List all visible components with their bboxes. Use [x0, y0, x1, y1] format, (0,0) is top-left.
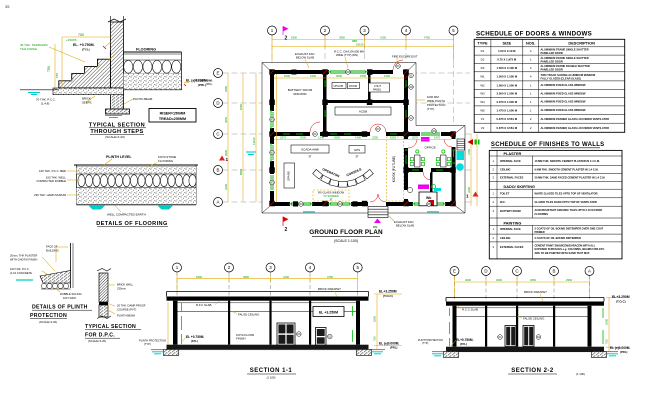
- svg-text:EL (±)0.000M.: EL (±)0.000M.: [196, 79, 213, 83]
- svg-text:W.C.: W.C.: [500, 200, 506, 204]
- svg-text:1: 1: [466, 194, 469, 199]
- svg-text:FACE OF: FACE OF: [46, 245, 58, 249]
- svg-text:BELOW SLAB: BELOW SLAB: [396, 224, 414, 228]
- svg-text:(TYP): (TYP): [422, 342, 428, 345]
- svg-text:E: E: [453, 269, 456, 274]
- svg-text:BATTERY ROOM: BATTERY ROOM: [288, 88, 313, 92]
- svg-text:COMPACTED RUBBLE: COMPACTED RUBBLE: [36, 179, 66, 183]
- svg-text:GLAZED TILES DADO UPTO TOP OF: GLAZED TILES DADO UPTO TOP OF VENTILATOR: [535, 200, 597, 204]
- svg-text:OFFICE: OFFICE: [424, 146, 435, 150]
- svg-text:UPS DB: UPS DB: [334, 84, 344, 88]
- svg-text:R.C.C.SLAB: R.C.C.SLAB: [462, 307, 478, 311]
- svg-text:3950: 3950: [339, 36, 345, 40]
- svg-text:100 THK. P.C.C.: 100 THK. P.C.C.: [10, 267, 30, 271]
- svg-text:2.070 X 1.000 M: 2.070 X 1.000 M: [497, 100, 518, 104]
- svg-text:NOS.: NOS.: [526, 41, 536, 46]
- svg-text:2950: 2950: [224, 86, 228, 92]
- svg-text:W1: W1: [480, 75, 485, 79]
- svg-text:(PRL): (PRL): [198, 83, 206, 87]
- svg-text:W3: W3: [480, 92, 485, 96]
- svg-text:RUBBLE SOLING: RUBBLE SOLING: [60, 292, 82, 296]
- svg-text:2250: 2250: [372, 136, 378, 140]
- svg-text:LT/HT: LT/HT: [374, 84, 381, 88]
- svg-text:2 COATS OF OIL BOUND DISTEMPER: 2 COATS OF OIL BOUND DISTEMPER: [535, 236, 582, 240]
- svg-text:PANEL: PANEL: [373, 88, 382, 92]
- svg-text:2070: 2070: [412, 136, 418, 140]
- svg-text:PROTECTION: PROTECTION: [30, 313, 67, 319]
- svg-text:FLOORING: FLOORING: [158, 159, 174, 163]
- svg-text:CEILING: CEILING: [500, 168, 511, 172]
- svg-text:UPS: UPS: [354, 148, 360, 152]
- svg-text:WIDE (TYP) (DN): WIDE (TYP) (DN): [336, 53, 358, 57]
- svg-text:ALUMINIUM FIXED GLASS WINDOW: ALUMINIUM FIXED GLASS WINDOW: [541, 91, 587, 95]
- svg-text:13100: 13100: [252, 137, 256, 145]
- svg-text:BRICK PARAPET: BRICK PARAPET: [318, 287, 341, 291]
- svg-text:(PRL): (PRL): [620, 350, 628, 354]
- svg-text:(1:10 CONCRETE: (1:10 CONCRETE: [10, 271, 32, 275]
- svg-text:STEPS: STEPS: [82, 101, 92, 105]
- svg-text:FALSE CEILING: FALSE CEILING: [523, 316, 545, 320]
- svg-text:1470: 1470: [434, 136, 440, 140]
- svg-text:1215: 1215: [390, 136, 396, 140]
- svg-text:D: D: [216, 101, 219, 106]
- svg-text:(TYL): (TYL): [82, 48, 90, 52]
- svg-text:DETAILS OF FLOORING: DETAILS OF FLOORING: [96, 221, 168, 227]
- svg-text:100 THK. P.C.C. BED: 100 THK. P.C.C. BED: [39, 169, 66, 173]
- svg-text:3200: 3200: [224, 184, 228, 190]
- svg-text:ROOM: ROOM: [349, 84, 357, 88]
- svg-text:FLOORING: FLOORING: [136, 48, 156, 52]
- svg-text:W2: W2: [480, 83, 485, 87]
- svg-text:FIRE ESCAPE EXIT: FIRE ESCAPE EXIT: [392, 55, 418, 59]
- svg-text:PRIMER: PRIMER: [535, 230, 545, 234]
- svg-text:5300: 5300: [291, 36, 297, 40]
- svg-text:INTERNAL FACE: INTERNAL FACE: [500, 227, 521, 231]
- svg-text:1.000 X 1.500 M: 1.000 X 1.500 M: [497, 83, 518, 87]
- svg-text:3950: 3950: [243, 275, 249, 279]
- svg-text:4750: 4750: [327, 275, 333, 279]
- svg-text:3.000 X 1.500 M: 3.000 X 1.500 M: [497, 92, 518, 96]
- svg-text:CEMENT PAINT SNOWCEM/DURACEM W: CEMENT PAINT SNOWCEM/DURACEM WITH ALL: [535, 244, 596, 248]
- svg-text:2575: 2575: [280, 136, 286, 140]
- svg-text:TILE FINISH: TILE FINISH: [20, 47, 37, 51]
- svg-text:0.675 X 0.561 M: 0.675 X 0.561 M: [497, 126, 518, 130]
- svg-text:EL +3.250M: EL +3.250M: [319, 311, 338, 315]
- svg-text:1400: 1400: [355, 136, 361, 140]
- svg-text:TYPICAL SECTION: TYPICAL SECTION: [85, 324, 136, 330]
- svg-text:1500: 1500: [384, 74, 390, 78]
- svg-text:1.470 X 1.000 M: 1.470 X 1.000 M: [497, 108, 518, 112]
- svg-text:TV SCREEN: TV SCREEN: [323, 194, 338, 198]
- svg-text:3200: 3200: [467, 187, 471, 193]
- svg-text:ALUMINIUM FRAMED GLASS LOUVERE: ALUMINIUM FRAMED GLASS LOUVERED VENTILAT…: [541, 126, 610, 130]
- svg-text:(1 100): (1 100): [576, 372, 585, 376]
- svg-text:(FFL): (FFL): [460, 342, 467, 346]
- svg-text:SPARE: SPARE: [287, 171, 291, 181]
- svg-text:ACDB: ACDB: [359, 110, 367, 114]
- svg-text:ALUMINIUM FIXED GLASS WINDOW: ALUMINIUM FIXED GLASS WINDOW: [541, 83, 587, 87]
- svg-text:TREAD=250MM: TREAD=250MM: [159, 117, 186, 121]
- svg-text:2950: 2950: [566, 278, 572, 282]
- svg-text:WELL COMPACTED EARTH: WELL COMPACTED EARTH: [107, 213, 146, 217]
- svg-text:DADO/ SKIRTING: DADO/ SKIRTING: [504, 185, 535, 189]
- svg-text:750: 750: [47, 66, 51, 72]
- svg-text:2500: 2500: [605, 319, 609, 325]
- svg-text:D1: D1: [481, 49, 485, 53]
- svg-text:3000: 3000: [336, 74, 342, 78]
- svg-text:750: 750: [78, 33, 84, 37]
- svg-text:2500: 2500: [373, 316, 377, 322]
- svg-text:EXPOSED SURFACES e.g. COLUMNS,: EXPOSED SURFACES e.g. COLUMNS, BEAMS FIN…: [535, 247, 606, 251]
- svg-text:1: 1: [226, 157, 229, 162]
- svg-text:3600: 3600: [496, 278, 502, 282]
- svg-text:E: E: [217, 71, 220, 76]
- svg-text:KIOSK (FUTURE): KIOSK (FUTURE): [392, 156, 396, 183]
- svg-text:18150: 18150: [356, 43, 364, 47]
- svg-text:FULLY GLAZED (CLEAR GLASS): FULLY GLAZED (CLEAR GLASS): [541, 77, 582, 81]
- svg-text:(SCALE=1:20): (SCALE=1:20): [105, 135, 124, 139]
- svg-text:230mm: 230mm: [117, 287, 127, 291]
- svg-text:ALUMINIUM FIXED GLASS WINDOW: ALUMINIUM FIXED GLASS WINDOW: [541, 108, 587, 112]
- svg-text:FALSE CEILING: FALSE CEILING: [238, 312, 260, 316]
- svg-text:C: C: [216, 132, 219, 137]
- svg-text:BELOW SLAB: BELOW SLAB: [296, 56, 314, 60]
- svg-text:0.75 X 1.975 M: 0.75 X 1.975 M: [497, 58, 517, 62]
- svg-text:D: D: [484, 269, 487, 274]
- svg-text:BUILDING: BUILDING: [46, 249, 59, 253]
- svg-text:DETAILS OF PLINTH: DETAILS OF PLINTH: [32, 305, 88, 311]
- svg-text:230 THK. HARD MURUM: 230 THK. HARD MURUM: [34, 193, 67, 197]
- svg-text:PAINTING: PAINTING: [504, 221, 522, 225]
- svg-text:ALUMINIUM FRAME SINGLE SHUTTER: ALUMINIUM FRAME SINGLE SHUTTER: [541, 48, 589, 52]
- svg-text:SECTION 2-2: SECTION 2-2: [511, 368, 554, 374]
- svg-text:4150: 4150: [283, 275, 289, 279]
- svg-text:ALUMINIUM FRAMED GLASS LOUVERE: ALUMINIUM FRAMED GLASS LOUVERED VENTILAT…: [541, 117, 610, 121]
- svg-text:20 THK. DAMP PROOF: 20 THK. DAMP PROOF: [117, 304, 146, 308]
- svg-text:2: 2: [285, 36, 288, 42]
- svg-text:PANELLED DOOR: PANELLED DOOR: [541, 68, 563, 72]
- svg-text:EXTERNAL FACES: EXTERNAL FACES: [500, 176, 524, 180]
- svg-text:EL+3.250M: EL+3.250M: [612, 295, 630, 299]
- svg-text:2650: 2650: [334, 136, 340, 140]
- svg-text:SCADA+MMI: SCADA+MMI: [301, 148, 319, 152]
- svg-text:ALUMINIUM FIXED GLASS WINDOW: ALUMINIUM FIXED GLASS WINDOW: [541, 100, 587, 104]
- svg-text:750: 750: [373, 336, 377, 341]
- svg-text:35: 35: [5, 4, 10, 9]
- svg-text:A: A: [588, 269, 591, 274]
- svg-text:(PRL): (PRL): [206, 83, 212, 86]
- svg-text:V1: V1: [481, 117, 485, 121]
- svg-text:SCHEDULE OF FINISHES TO WA: SCHEDULE OF FINISHES TO WALLS: [491, 142, 605, 148]
- svg-text:4150: 4150: [380, 36, 386, 40]
- svg-text:6000X4500: 6000X4500: [293, 92, 307, 96]
- svg-text:(PRL): (PRL): [390, 345, 398, 349]
- svg-text:ARE TO BE PAINTED WITH SAND TE: ARE TO BE PAINTED WITH SAND TEXT MAT.: [535, 251, 591, 255]
- svg-text:TWO TRACK SLIDING ALUMINIUM WI: TWO TRACK SLIDING ALUMINIUM WINDOW: [541, 73, 596, 77]
- svg-text:1500: 1500: [360, 74, 366, 78]
- svg-text:100 THICK: 100 THICK: [63, 296, 76, 300]
- svg-text:20 MM THK. SAND FACED CEMENT P: 20 MM THK. SAND FACED CEMENT PLASTER IN …: [535, 176, 605, 180]
- svg-text:BRICK WALL: BRICK WALL: [117, 283, 134, 287]
- svg-text:(TYP): (TYP): [427, 107, 434, 111]
- svg-text:ALUMINIUM FRAME DOUBLE SHUTTER: ALUMINIUM FRAME DOUBLE SHUTTER: [541, 64, 591, 68]
- svg-text:750: 750: [605, 339, 609, 344]
- svg-text:TYPE: TYPE: [477, 41, 488, 46]
- svg-text:(FFL): (FFL): [191, 339, 198, 343]
- svg-text:(1:4:8): (1:4:8): [41, 102, 49, 106]
- svg-text:(SCALE=1:20): (SCALE=1:20): [39, 320, 57, 324]
- svg-text:(TYP): (TYP): [144, 342, 151, 346]
- svg-text:R.F.C SLAB: R.F.C SLAB: [196, 303, 211, 307]
- svg-text:D3: D3: [481, 66, 485, 70]
- svg-text:0.675 X 0.561 M: 0.675 X 0.561 M: [497, 117, 518, 121]
- svg-text:PLINTH BEAM: PLINTH BEAM: [117, 314, 136, 318]
- svg-text:CEILING: CEILING: [500, 236, 511, 240]
- svg-text:WITH GHOTAI FINISH: WITH GHOTAI FINISH: [10, 258, 37, 262]
- svg-text:6250: 6250: [239, 104, 243, 110]
- svg-text:PANELLED DOOR: PANELLED DOOR: [541, 51, 563, 55]
- svg-text:BRICK PARAPET: BRICK PARAPET: [524, 290, 547, 294]
- svg-text:TOILET: TOILET: [500, 192, 510, 196]
- svg-text:150: 150: [55, 73, 59, 78]
- svg-text:(SCALE=1:20): (SCALE=1:20): [88, 339, 106, 343]
- svg-text:3T: 3T: [330, 199, 333, 202]
- svg-text:3050: 3050: [530, 278, 536, 282]
- svg-text:350: 350: [352, 39, 357, 43]
- svg-text:SECTION 1-1: SECTION 1-1: [250, 368, 293, 374]
- svg-text:3T: 3T: [308, 155, 311, 159]
- svg-text:FOR D.P.C.: FOR D.P.C.: [85, 333, 115, 339]
- svg-text:ALUMINIUM FRAME SINGLE SHUTTER: ALUMINIUM FRAME SINGLE SHUTTER: [541, 56, 589, 60]
- svg-text:3600: 3600: [224, 150, 228, 156]
- svg-text:Wb: Wb: [426, 196, 431, 200]
- svg-text:1.500 X 2.100 M: 1.500 X 2.100 M: [497, 66, 518, 70]
- svg-text:WHITE GLAZED TILES UPTO TOP OF: WHITE GLAZED TILES UPTO TOP OF VENTILATO…: [535, 192, 598, 196]
- svg-text:SCHEDULE OF DOORS & WINDOW: SCHEDULE OF DOORS & WINDOWS: [476, 31, 592, 38]
- svg-text:6850: 6850: [239, 169, 243, 175]
- svg-text:FINISH: FINISH: [236, 337, 245, 341]
- svg-text:(T.O.C): (T.O.C): [616, 300, 626, 304]
- svg-text:20mm. THK PLASTER: 20mm. THK PLASTER: [10, 254, 37, 258]
- svg-text:+150X5: +150X5: [66, 38, 77, 42]
- svg-text:PLINTH BEAM: PLINTH BEAM: [133, 97, 153, 101]
- svg-text:PLASTER: PLASTER: [504, 152, 522, 156]
- svg-text:4750: 4750: [424, 36, 430, 40]
- svg-text:3750: 3750: [467, 149, 471, 155]
- svg-text:ACID RESISTANT CERAMIC TILES U: ACID RESISTANT CERAMIC TILES UPTO 2.10 M…: [535, 208, 602, 212]
- svg-text:(T.O.C): (T.O.C): [383, 294, 393, 298]
- svg-text:2: 2: [285, 227, 288, 233]
- svg-text:W4: W4: [480, 100, 485, 104]
- svg-text:10 MM THK. SMOOTH CEMENT PLAST: 10 MM THK. SMOOTH CEMENT PLASTER IN 1:4 …: [535, 159, 601, 163]
- svg-text:3200: 3200: [465, 278, 471, 282]
- svg-text:BATTERY ROOM: BATTERY ROOM: [500, 209, 521, 213]
- svg-text:DESCRIPTION: DESCRIPTION: [568, 41, 595, 46]
- svg-text:SIZE: SIZE: [502, 41, 511, 46]
- svg-text:B: B: [553, 269, 556, 274]
- svg-text:EL+3.250M: EL+3.250M: [379, 290, 397, 294]
- svg-text:INTERNAL FACE: INTERNAL FACE: [500, 159, 521, 163]
- svg-text:6 MM THK. SMOOTH CEMENT PLASTE: 6 MM THK. SMOOTH CEMENT PLASTER IN 1:4 C…: [535, 168, 599, 172]
- svg-text:EL. +0.750M.: EL. +0.750M.: [73, 43, 95, 47]
- svg-text:1500: 1500: [310, 74, 316, 78]
- svg-text:D2: D2: [481, 58, 485, 62]
- svg-text:C: C: [515, 269, 518, 274]
- svg-text:1.500 X 1.500 M: 1.500 X 1.500 M: [497, 75, 518, 79]
- svg-text:2000: 2000: [300, 136, 306, 140]
- svg-text:2 COATS OF OIL BOUND DISTEMPER: 2 COATS OF OIL BOUND DISTEMPER OVER ONE …: [535, 227, 604, 231]
- svg-text:COURSE (PVT): COURSE (PVT): [117, 308, 136, 312]
- svg-text:PLINTH LEVEL: PLINTH LEVEL: [106, 155, 132, 159]
- svg-text:V2: V2: [481, 126, 485, 130]
- svg-text:A: A: [217, 200, 220, 205]
- svg-text:1500: 1500: [284, 74, 290, 78]
- svg-text:B: B: [217, 168, 220, 173]
- svg-text:RISER=150MM: RISER=150MM: [160, 112, 186, 116]
- svg-text:(SCALE 1:100): (SCALE 1:100): [334, 239, 358, 243]
- svg-text:GROUND FLOOR PLAN: GROUND FLOOR PLAN: [309, 229, 383, 236]
- svg-text:FLOORING: FLOORING: [535, 212, 549, 216]
- svg-text:1240: 1240: [318, 136, 324, 140]
- svg-text:PANELLED DOOR: PANELLED DOOR: [541, 59, 563, 63]
- svg-text:(1 100): (1 100): [267, 375, 276, 379]
- svg-text:RX GLASS WINDOW: RX GLASS WINDOW: [318, 191, 344, 195]
- svg-text:5300: 5300: [196, 275, 202, 279]
- svg-text:3050: 3050: [224, 117, 228, 123]
- svg-text:1.00 X 2.10 M: 1.00 X 2.10 M: [498, 49, 516, 53]
- svg-text:EXTERNAL FACES: EXTERNAL FACES: [500, 245, 524, 249]
- svg-text:3T: 3T: [355, 155, 358, 159]
- svg-text:W5: W5: [480, 108, 485, 112]
